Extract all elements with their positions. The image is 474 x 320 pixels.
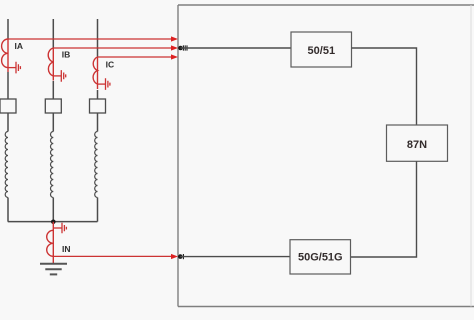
node phase CT entry	[178, 46, 183, 51]
CT IB secondary ground	[53, 70, 65, 82]
relay 50G/51G	[290, 240, 351, 274]
phase A conductor	[7, 19, 9, 222]
wire 50/51 to 87N	[352, 48, 417, 125]
svg-text:IB: IB	[62, 50, 71, 60]
wire entry to 50/51	[181, 47, 292, 49]
CT IA secondary ground	[8, 62, 20, 74]
neutral bus wire	[8, 221, 98, 223]
wire 87N to 50G/51G	[351, 161, 417, 257]
relay panel boundary box	[178, 5, 474, 307]
winding phase A	[5, 132, 8, 198]
breaker box phase B	[45, 99, 61, 113]
relay 50/51	[291, 32, 352, 67]
wire IA to relay	[8, 38, 172, 40]
neutral junction node	[51, 220, 56, 225]
CT IN secondary ground	[53, 223, 66, 233]
conductor count ticks (3)	[183, 45, 187, 50]
phase C conductor	[97, 19, 99, 222]
svg-text:50G/51G: 50G/51G	[298, 251, 343, 263]
CT IC secondary ground	[98, 78, 110, 90]
winding phase B	[51, 132, 54, 198]
phase B conductor	[52, 19, 54, 222]
breaker box phase A	[0, 99, 16, 113]
CT IN	[47, 222, 54, 264]
winding phase C	[95, 132, 98, 198]
wire IN to relay	[53, 255, 172, 257]
arrow IC	[171, 54, 178, 59]
wire entry to 50G/51G	[180, 256, 290, 258]
relay 87N	[387, 125, 448, 161]
breaker box phase C	[90, 99, 106, 113]
arrow IN	[171, 254, 178, 259]
wire IB to relay	[53, 47, 172, 49]
svg-text:IN: IN	[62, 244, 71, 254]
arrow IB	[171, 45, 178, 50]
svg-text:IC: IC	[106, 60, 115, 70]
conductor count tick (1)	[182, 254, 184, 259]
arrow IA	[171, 36, 178, 41]
earth ground	[40, 264, 67, 275]
wire IC to relay	[98, 56, 172, 58]
node neutral CT entry	[178, 254, 183, 259]
CT IB	[48, 48, 53, 81]
CT IA	[2, 39, 8, 72]
svg-text:87N: 87N	[407, 139, 427, 151]
svg-text:50/51: 50/51	[308, 45, 336, 57]
svg-text:IA: IA	[15, 41, 24, 51]
CT IC	[93, 57, 97, 89]
